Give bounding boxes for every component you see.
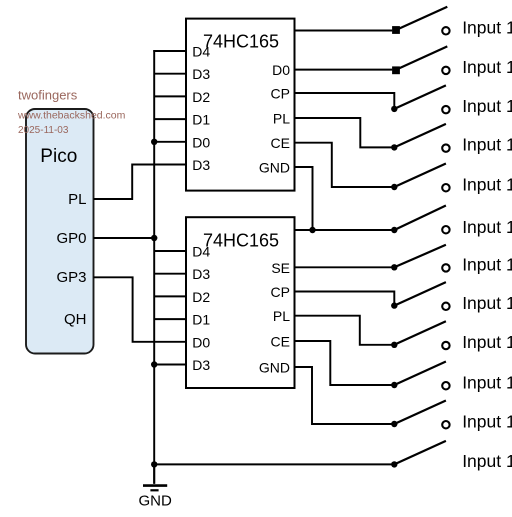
wire Pico GP3 to U2 D0	[94, 277, 188, 342]
wire U1 CP to S3	[294, 93, 394, 109]
wire Pico GP0 to bus	[94, 237, 155, 239]
switch S2 throw contact	[442, 67, 449, 74]
IC U1 74HC165 body	[186, 19, 295, 191]
svg-text:QH: QH	[64, 311, 87, 328]
svg-text:CE: CE	[271, 334, 290, 350]
switch S2 lever	[396, 46, 447, 69]
svg-text:Input 1: Input 1	[462, 135, 512, 155]
svg-text:D3: D3	[192, 266, 210, 282]
wire U2 D4 stub	[154, 250, 187, 252]
svg-text:Input 1: Input 1	[462, 451, 512, 471]
switch S8 throw contact	[442, 303, 449, 310]
svg-text:D2: D2	[192, 89, 210, 105]
MCU module Pico body	[26, 109, 94, 354]
svg-text:www.thebackshed.com: www.thebackshed.com	[17, 110, 126, 122]
wire U1 CE to S5	[294, 143, 394, 187]
switch S6 throw contact	[442, 226, 449, 233]
svg-text:D3: D3	[192, 157, 210, 173]
switch S5 throw contact	[442, 184, 449, 191]
wire U1 D4 stub	[153, 50, 187, 52]
wire U2 CP to S8	[294, 292, 394, 306]
wire U2 CE to S10	[294, 341, 394, 385]
wire U1 D0 stub	[154, 141, 187, 143]
wire U2 D3 lower stub	[154, 364, 187, 366]
junction GND row on bus	[151, 461, 157, 467]
junction U1 GND / U2 pin1	[309, 227, 315, 233]
wire bus vertical GP0 net	[153, 50, 155, 484]
switch S10 throw contact	[442, 382, 449, 389]
switch S4 throw contact	[442, 144, 449, 151]
svg-text:D3: D3	[192, 66, 210, 82]
wire Pico PL to U1 D3	[94, 165, 188, 200]
svg-text:GP0: GP0	[56, 230, 86, 247]
switch S11 throw contact	[442, 421, 449, 428]
svg-text:GP3: GP3	[56, 269, 86, 286]
switch S6 lever	[394, 206, 446, 231]
junction U2 D3 on bus	[151, 361, 157, 367]
svg-text:twofingers: twofingers	[18, 88, 78, 103]
wire bus to S12	[154, 463, 394, 465]
wire U1 pin1 to S1	[294, 30, 392, 32]
svg-text:CP: CP	[271, 284, 290, 300]
svg-text:Pico: Pico	[40, 146, 77, 167]
switch S9 pole	[391, 342, 397, 348]
svg-text:PL: PL	[273, 308, 290, 324]
svg-text:Input 1: Input 1	[462, 217, 512, 237]
switch S3 throw contact	[442, 106, 449, 113]
switch S4 pole	[391, 144, 397, 150]
svg-text:GND: GND	[139, 493, 173, 510]
svg-text:Input 1: Input 1	[462, 372, 512, 392]
wire U1 PL to S4	[294, 118, 394, 147]
svg-text:74HC165: 74HC165	[203, 31, 279, 51]
svg-text:CP: CP	[271, 86, 290, 102]
svg-text:2025-11-03: 2025-11-03	[18, 125, 69, 136]
svg-text:74HC165: 74HC165	[203, 230, 279, 250]
wire U1 GND down to U2 pin1 net	[294, 167, 312, 230]
switch S7 pole	[391, 264, 397, 270]
switch S9 throw contact	[442, 342, 449, 349]
svg-text:D2: D2	[192, 289, 210, 305]
svg-text:D0: D0	[272, 62, 290, 78]
junction U1 D0 on bus	[151, 139, 157, 145]
switch S3 lever	[394, 85, 446, 109]
svg-text:D1: D1	[192, 312, 210, 328]
wire U2 pin1 to S6	[294, 229, 394, 231]
switch S1 pole (closed contact square)	[392, 26, 400, 34]
wire U1 D3 stub	[154, 73, 187, 75]
switch S1 lever	[396, 7, 447, 30]
wire U2 D1 stub	[154, 318, 187, 320]
svg-text:D1: D1	[192, 112, 210, 128]
wire U2 GND to S11	[294, 367, 394, 424]
svg-text:CE: CE	[271, 135, 290, 151]
svg-text:PL: PL	[273, 111, 290, 127]
wire U2 PL to S9	[294, 316, 394, 345]
svg-text:Input 1: Input 1	[462, 411, 512, 431]
switch S11 pole	[391, 421, 397, 427]
IC U2 74HC165 body	[186, 217, 295, 388]
svg-text:Input 1: Input 1	[462, 17, 512, 37]
svg-text:D3: D3	[192, 357, 210, 373]
wire U1 D0 to S2	[294, 69, 392, 71]
switch S7 throw contact	[442, 264, 449, 271]
switch S5 lever	[394, 164, 446, 188]
switch S3 pole	[391, 106, 397, 112]
junction GP0 on bus	[151, 235, 157, 241]
wire U1 D2 stub	[154, 95, 187, 97]
svg-text:GND: GND	[259, 360, 290, 376]
wire U2 SE to S7	[294, 266, 394, 268]
switch S11 lever	[394, 401, 446, 425]
switch S2 pole (closed contact square)	[392, 66, 400, 74]
svg-text:D4: D4	[192, 244, 210, 260]
switch S4 lever	[394, 124, 446, 147]
svg-text:GND: GND	[259, 160, 290, 176]
switch S9 lever	[394, 321, 446, 345]
wire U1 D1 stub	[154, 118, 187, 120]
svg-text:D0: D0	[192, 134, 210, 150]
switch S10 lever	[394, 362, 446, 386]
svg-text:Input 1: Input 1	[462, 174, 512, 194]
switch S7 lever	[394, 245, 446, 267]
ground symbol GND	[143, 464, 167, 490]
wire U2 D2 stub	[154, 295, 187, 297]
switch S8 lever	[394, 282, 446, 306]
switch S12 lever	[394, 441, 446, 465]
switch S12 pole	[391, 461, 397, 467]
switch S10 pole	[391, 382, 397, 388]
svg-text:Input 1: Input 1	[462, 332, 512, 352]
svg-text:SE: SE	[271, 260, 290, 276]
svg-text:Input 1: Input 1	[462, 57, 512, 77]
svg-text:Input 1: Input 1	[462, 293, 512, 313]
switch S5 pole	[391, 184, 397, 190]
svg-text:PL: PL	[68, 191, 86, 208]
svg-text:Input 1: Input 1	[462, 255, 512, 275]
wire U2 D3 stub	[154, 273, 187, 275]
svg-text:Input 1: Input 1	[462, 96, 512, 116]
svg-text:D0: D0	[192, 334, 210, 350]
switch S1 throw contact	[442, 27, 449, 34]
svg-text:D4: D4	[192, 44, 210, 60]
switch S6 pole	[391, 227, 397, 233]
switch S8 pole	[391, 302, 397, 308]
